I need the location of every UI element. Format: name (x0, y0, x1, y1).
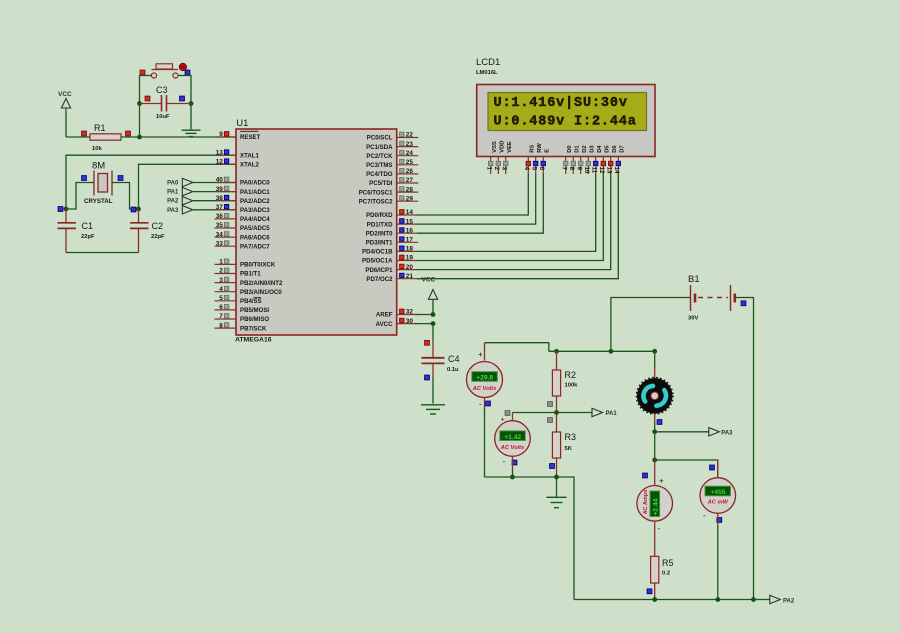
svg-text:C2: C2 (152, 221, 164, 231)
wire (121, 136, 236, 138)
pin 8 PB7/SCK (215, 327, 237, 329)
pin 17 PD3/INT1 (397, 241, 419, 243)
wire (654, 366, 656, 378)
svg-text:13: 13 (605, 167, 612, 174)
node junction squares (58, 207, 63, 212)
wire crystal right (112, 183, 139, 210)
pin 24 PC2/TCK (397, 155, 419, 157)
junction (510, 475, 515, 480)
SS overline (254, 297, 262, 299)
junction (64, 207, 69, 212)
capacitor C3 (161, 95, 163, 112)
ground (C4) (421, 404, 445, 406)
svg-text:D3: D3 (590, 145, 596, 153)
pin 14 PD0/RXD (397, 214, 419, 216)
svg-text:R2: R2 (565, 370, 577, 380)
svg-text:PA3/ADC3: PA3/ADC3 (240, 207, 270, 214)
svg-text:2: 2 (493, 167, 500, 171)
pin 23 PC1/SDA (397, 146, 419, 148)
wire (140, 76, 152, 138)
pin 9 RESET (217, 136, 236, 138)
svg-text:33: 33 (216, 240, 224, 247)
pin 38 PA2/ADC2 (217, 200, 236, 202)
pin 13 XTAL1 (217, 154, 236, 156)
svg-text:6: 6 (538, 167, 545, 171)
junction (137, 101, 142, 106)
svg-text:10uF: 10uF (156, 114, 170, 120)
svg-text:22: 22 (406, 132, 414, 139)
svg-text:18: 18 (406, 246, 414, 253)
svg-text:1: 1 (485, 167, 492, 171)
svg-text:LCD1: LCD1 (476, 57, 500, 68)
pin 25 PC3/TMS (397, 164, 419, 166)
svg-text:RW: RW (537, 143, 543, 153)
power meter +455 AC mW (717, 460, 719, 478)
svg-text:PA1/ADC1: PA1/ADC1 (240, 189, 270, 196)
resistor R3 5K (556, 413, 558, 433)
wire (417, 174, 528, 216)
wire bottom rail (574, 599, 770, 601)
pin 33 PA7/ADC7 (215, 245, 237, 247)
svg-text:24: 24 (406, 150, 414, 157)
wire (485, 343, 549, 352)
svg-text:PD3/INT1: PD3/INT1 (366, 240, 393, 247)
svg-text:14: 14 (406, 209, 414, 216)
wire (432, 324, 434, 342)
svg-text:100k: 100k (565, 383, 579, 389)
svg-text:22pF: 22pF (151, 234, 165, 240)
pin 26 PC4/TDO (397, 173, 419, 175)
pin 21 PD7/OC2 (397, 278, 419, 280)
svg-text:13: 13 (216, 149, 224, 156)
svg-text:PD6/ICP1: PD6/ICP1 (365, 267, 393, 274)
wire (417, 174, 596, 252)
svg-text:9: 9 (219, 131, 223, 138)
svg-text:8: 8 (568, 167, 575, 171)
svg-text:D4: D4 (597, 145, 603, 153)
pin 40 PA0/ADC0 (217, 182, 236, 184)
node R5 square (647, 589, 652, 594)
svg-text:PA0/ADC0: PA0/ADC0 (240, 180, 270, 187)
svg-text:34: 34 (216, 231, 224, 238)
svg-text:29: 29 (406, 195, 414, 202)
svg-text:15: 15 (406, 218, 414, 225)
svg-text:R1: R1 (94, 123, 106, 133)
svg-text:PB4/SS: PB4/SS (240, 298, 262, 305)
svg-text:-: - (503, 457, 506, 466)
wire (611, 298, 691, 352)
node V2 probe square (505, 411, 510, 416)
node B1 square (741, 301, 746, 306)
pin 3 PB2/AIN0/INT2 (215, 282, 237, 284)
wire (654, 432, 656, 460)
svg-text:B1: B1 (688, 274, 700, 285)
resistor R2 100k (556, 351, 558, 370)
svg-text:16: 16 (406, 227, 414, 234)
svg-text:PA3: PA3 (721, 430, 733, 436)
wire (512, 413, 514, 421)
svg-text:PB2/AIN0/INT2: PB2/AIN0/INT2 (240, 280, 283, 287)
svg-text:37: 37 (216, 204, 224, 211)
svg-text:+455: +455 (710, 489, 725, 496)
svg-text:R3: R3 (565, 432, 577, 442)
pin 35 PA5/ADC5 (215, 227, 237, 229)
svg-text:5K: 5K (565, 446, 573, 452)
wire (415, 314, 433, 316)
svg-text:VEE: VEE (507, 141, 513, 153)
svg-text:RESET: RESET (240, 134, 261, 141)
svg-text:PA2/ADC2: PA2/ADC2 (240, 198, 270, 205)
svg-text:0.2: 0.2 (662, 571, 670, 577)
svg-text:4: 4 (523, 167, 530, 171)
svg-text:PB0/T0/XCK: PB0/T0/XCK (240, 262, 276, 269)
svg-text:VDD: VDD (500, 141, 506, 153)
svg-text:AC Volts: AC Volts (472, 386, 497, 392)
wire (654, 414, 656, 424)
wire (193, 191, 236, 193)
svg-text:+29.8: +29.8 (476, 375, 493, 382)
svg-text:PC7/TOSC2: PC7/TOSC2 (359, 198, 393, 205)
node R3 square bottom (550, 464, 555, 469)
capacitor C1 22pF (65, 209, 67, 223)
svg-text:10k: 10k (92, 146, 102, 152)
wire (417, 174, 618, 279)
LCD screen (488, 93, 647, 131)
terminal PA2 (770, 595, 781, 603)
svg-text:27: 27 (406, 177, 414, 184)
svg-text:40: 40 (216, 177, 224, 184)
svg-text:36: 36 (216, 213, 224, 220)
svg-text:14: 14 (613, 167, 620, 174)
svg-text:PB1/T1: PB1/T1 (240, 271, 261, 278)
svg-text:39: 39 (216, 186, 224, 193)
wire XTAL2 net (139, 164, 237, 209)
node W1 square top (710, 465, 715, 470)
pin 18 PD4/OC1B (397, 250, 419, 252)
pin 19 PD5/OC1A (397, 260, 419, 262)
svg-text:RS: RS (530, 145, 536, 153)
svg-text:-: - (658, 524, 661, 533)
wire (66, 136, 92, 138)
svg-text:PC1/SDA: PC1/SDA (366, 144, 393, 151)
svg-text:PA0: PA0 (167, 181, 179, 187)
svg-text:20: 20 (406, 264, 414, 271)
pin 20 PD6/ICP1 (397, 269, 419, 271)
IC U1 ATMEGA16 body (236, 129, 397, 335)
svg-text:PC4/TDO: PC4/TDO (366, 171, 393, 178)
svg-text:D5: D5 (605, 145, 611, 153)
pin 22 PC0/SCL (397, 137, 419, 139)
svg-text:7: 7 (219, 313, 223, 320)
svg-text:26: 26 (406, 168, 414, 175)
pin 15 PD1/TXD (397, 223, 419, 225)
svg-text:D1: D1 (575, 145, 581, 153)
svg-text:CRYSTAL: CRYSTAL (84, 198, 113, 205)
pin 29 PC7/TOSC2 (397, 200, 419, 202)
svg-text:PA7/ADC7: PA7/ADC7 (240, 243, 270, 250)
svg-text:35: 35 (216, 222, 224, 229)
svg-text:30V: 30V (688, 316, 698, 322)
node R2 square (548, 402, 553, 407)
junction (554, 410, 559, 415)
pin 4 PB3/AIN1/OC0 (215, 291, 237, 293)
node C4 square low (425, 375, 430, 380)
node W1 square bottom (717, 518, 722, 523)
svg-text:+2.44: +2.44 (652, 498, 659, 515)
svg-text:+: + (478, 350, 483, 359)
pin 5 PB4/SS (215, 300, 237, 302)
pin 36 PA4/ADC4 (215, 218, 237, 220)
wire (655, 460, 718, 478)
svg-text:PB3/AIN1/OC0: PB3/AIN1/OC0 (240, 289, 282, 296)
svg-text:AC Amps: AC Amps (643, 490, 649, 515)
pin 37 PA3/ADC3 (217, 209, 236, 211)
svg-text:D7: D7 (620, 145, 626, 152)
svg-text:5: 5 (530, 167, 537, 171)
svg-text:PC3/TMS: PC3/TMS (366, 162, 392, 169)
pin 39 PA1/ADC1 (217, 191, 236, 193)
pin 27 PC5/TDI (397, 182, 419, 184)
wire capacitor bottoms (66, 252, 139, 254)
node V1 square (486, 401, 491, 406)
wire (654, 521, 656, 556)
svg-text:-: - (703, 511, 706, 520)
LCD LCD1 body (477, 85, 655, 157)
svg-text:4: 4 (219, 286, 223, 293)
svg-text:AC Volts: AC Volts (500, 445, 525, 451)
svg-text:AREF: AREF (376, 312, 393, 319)
svg-text:30: 30 (406, 318, 414, 325)
svg-text:PB7/SCK: PB7/SCK (240, 325, 267, 332)
svg-text:PA2: PA2 (167, 199, 179, 205)
svg-text:22pF: 22pF (81, 234, 95, 240)
junction (652, 458, 657, 463)
svg-text:D6: D6 (612, 145, 618, 153)
svg-text:PD1/TXD: PD1/TXD (367, 221, 393, 228)
svg-text:12: 12 (216, 159, 224, 166)
svg-text:PB6/MISO: PB6/MISO (240, 316, 269, 323)
svg-text:R5: R5 (662, 558, 674, 568)
svg-text:23: 23 (406, 141, 414, 148)
svg-text:PA1: PA1 (606, 411, 618, 417)
svg-text:28: 28 (406, 186, 414, 193)
svg-text:10: 10 (583, 167, 590, 174)
motor (637, 378, 673, 414)
junction (137, 135, 142, 140)
junction (652, 597, 657, 602)
svg-text:PD7/OC2: PD7/OC2 (366, 276, 393, 283)
svg-text:0.1u: 0.1u (447, 367, 459, 373)
wire (484, 398, 486, 410)
svg-text:C4: C4 (448, 354, 460, 364)
wire bottom-left rail (485, 477, 575, 600)
node V2 square (512, 460, 517, 465)
svg-text:6: 6 (219, 304, 223, 311)
resistor R1 (90, 134, 121, 140)
svg-text:PC2/TCK: PC2/TCK (366, 153, 393, 160)
svg-text:LM016L: LM016L (476, 70, 498, 76)
pin 2 PB1/T1 (215, 273, 237, 275)
push button (152, 69, 179, 71)
svg-text:PC0/SCL: PC0/SCL (367, 135, 393, 142)
wire (193, 209, 236, 211)
svg-text:8: 8 (219, 322, 223, 329)
wire (417, 174, 536, 225)
svg-text:AVCC: AVCC (376, 321, 393, 328)
svg-text:C3: C3 (156, 85, 168, 95)
node R1 squares (82, 131, 87, 136)
wire (193, 182, 236, 184)
node crystal squares (82, 176, 87, 181)
terminal PA3 (655, 431, 709, 433)
node C3 squares (145, 96, 150, 101)
wire (417, 174, 543, 234)
svg-text:AC mW: AC mW (707, 500, 729, 506)
junction (554, 349, 559, 354)
svg-text:25: 25 (406, 159, 414, 166)
wire (717, 513, 719, 527)
svg-text:U:1.416v|SU:30v: U:1.416v|SU:30v (494, 96, 628, 111)
capacitor C4 0.1u (432, 342, 434, 357)
svg-text:PC5/TDI: PC5/TDI (369, 180, 393, 187)
pin 12 XTAL2 (217, 163, 236, 165)
wire (178, 76, 191, 130)
wire (549, 350, 655, 352)
node button squares (140, 70, 145, 75)
ground (R3) (556, 477, 558, 497)
svg-text:PA5/ADC5: PA5/ADC5 (240, 225, 270, 232)
svg-text:1: 1 (219, 259, 223, 266)
pin 16 PD2/INT0 (397, 232, 419, 234)
button actuator (179, 63, 186, 70)
node motor square (657, 420, 662, 425)
svg-text:11: 11 (590, 167, 597, 174)
svg-text:12: 12 (598, 167, 605, 174)
svg-text:5: 5 (219, 295, 223, 302)
node A1 square (643, 473, 648, 478)
svg-text:XTAL2: XTAL2 (240, 162, 259, 169)
svg-text:D0: D0 (567, 145, 573, 152)
svg-text:7: 7 (560, 167, 567, 171)
node R3 square top (548, 418, 553, 423)
svg-text:PA1: PA1 (167, 190, 179, 196)
svg-text:32: 32 (406, 309, 414, 316)
wire crystal left (66, 183, 94, 210)
svg-text:PB5/MOSI: PB5/MOSI (240, 307, 269, 314)
svg-text:XTAL1: XTAL1 (240, 152, 259, 159)
svg-text:U:0.489v I:2.44a: U:0.489v I:2.44a (494, 115, 637, 130)
svg-text:38: 38 (216, 195, 224, 202)
pin 34 PA6/ADC6 (215, 236, 237, 238)
svg-text:VCC: VCC (58, 91, 72, 98)
svg-text:D2: D2 (582, 145, 588, 152)
svg-text:17: 17 (406, 237, 414, 244)
wire (735, 298, 754, 600)
svg-text:VCC: VCC (422, 276, 436, 283)
svg-text:VSS: VSS (492, 141, 498, 153)
resistor R5 0.2 (651, 556, 659, 583)
svg-text:PA3: PA3 (167, 208, 179, 214)
svg-text:PD2/INT0: PD2/INT0 (366, 230, 393, 237)
pin 32 AREF (397, 314, 419, 316)
capacitor C2 22pF (138, 209, 140, 223)
node C4 square (425, 340, 430, 345)
svg-text:PD5/OC1A: PD5/OC1A (362, 258, 393, 265)
pin 1 PB0/T0/XCK (215, 263, 237, 265)
wire (512, 456, 514, 470)
wire XTAL1 net (66, 155, 236, 209)
svg-text:2: 2 (219, 268, 223, 275)
pin 6 PB5/MOSI (215, 309, 237, 311)
svg-text:8M: 8M (92, 161, 105, 172)
wire (417, 174, 611, 270)
svg-text:19: 19 (406, 255, 414, 262)
svg-text:ATMEGA16: ATMEGA16 (235, 337, 272, 344)
svg-text:C1: C1 (82, 221, 94, 231)
svg-text:E: E (545, 149, 551, 153)
pin 7 PB6/MISO (215, 318, 237, 320)
svg-text:9: 9 (575, 167, 582, 171)
wire (417, 174, 603, 261)
junction (431, 312, 436, 317)
svg-text:21: 21 (406, 273, 414, 280)
svg-text:PA2: PA2 (783, 598, 795, 604)
svg-text:U1: U1 (236, 118, 248, 129)
svg-text:PC6/TOSC1: PC6/TOSC1 (359, 189, 393, 196)
svg-text:3: 3 (500, 167, 507, 171)
svg-text:PD0/RXD: PD0/RXD (366, 212, 393, 219)
svg-text:+: + (659, 477, 664, 486)
svg-text:3: 3 (219, 277, 223, 284)
wire (65, 111, 67, 138)
terminal PA1 (557, 412, 593, 414)
svg-text:PA4/ADC4: PA4/ADC4 (240, 216, 270, 223)
wire (193, 200, 236, 202)
ground (button) (182, 129, 201, 131)
wire (513, 412, 557, 414)
svg-text:-: - (479, 400, 482, 409)
svg-text:+1.42: +1.42 (504, 434, 521, 441)
svg-text:PA6/ADC6: PA6/ADC6 (240, 234, 270, 241)
pin 30 AVCC (397, 323, 419, 325)
RESET overline (240, 130, 259, 132)
junction (652, 429, 657, 434)
svg-text:PD4/OC1B: PD4/OC1B (362, 249, 393, 256)
pin 28 PC6/TOSC1 (397, 191, 419, 193)
wire (432, 301, 434, 315)
